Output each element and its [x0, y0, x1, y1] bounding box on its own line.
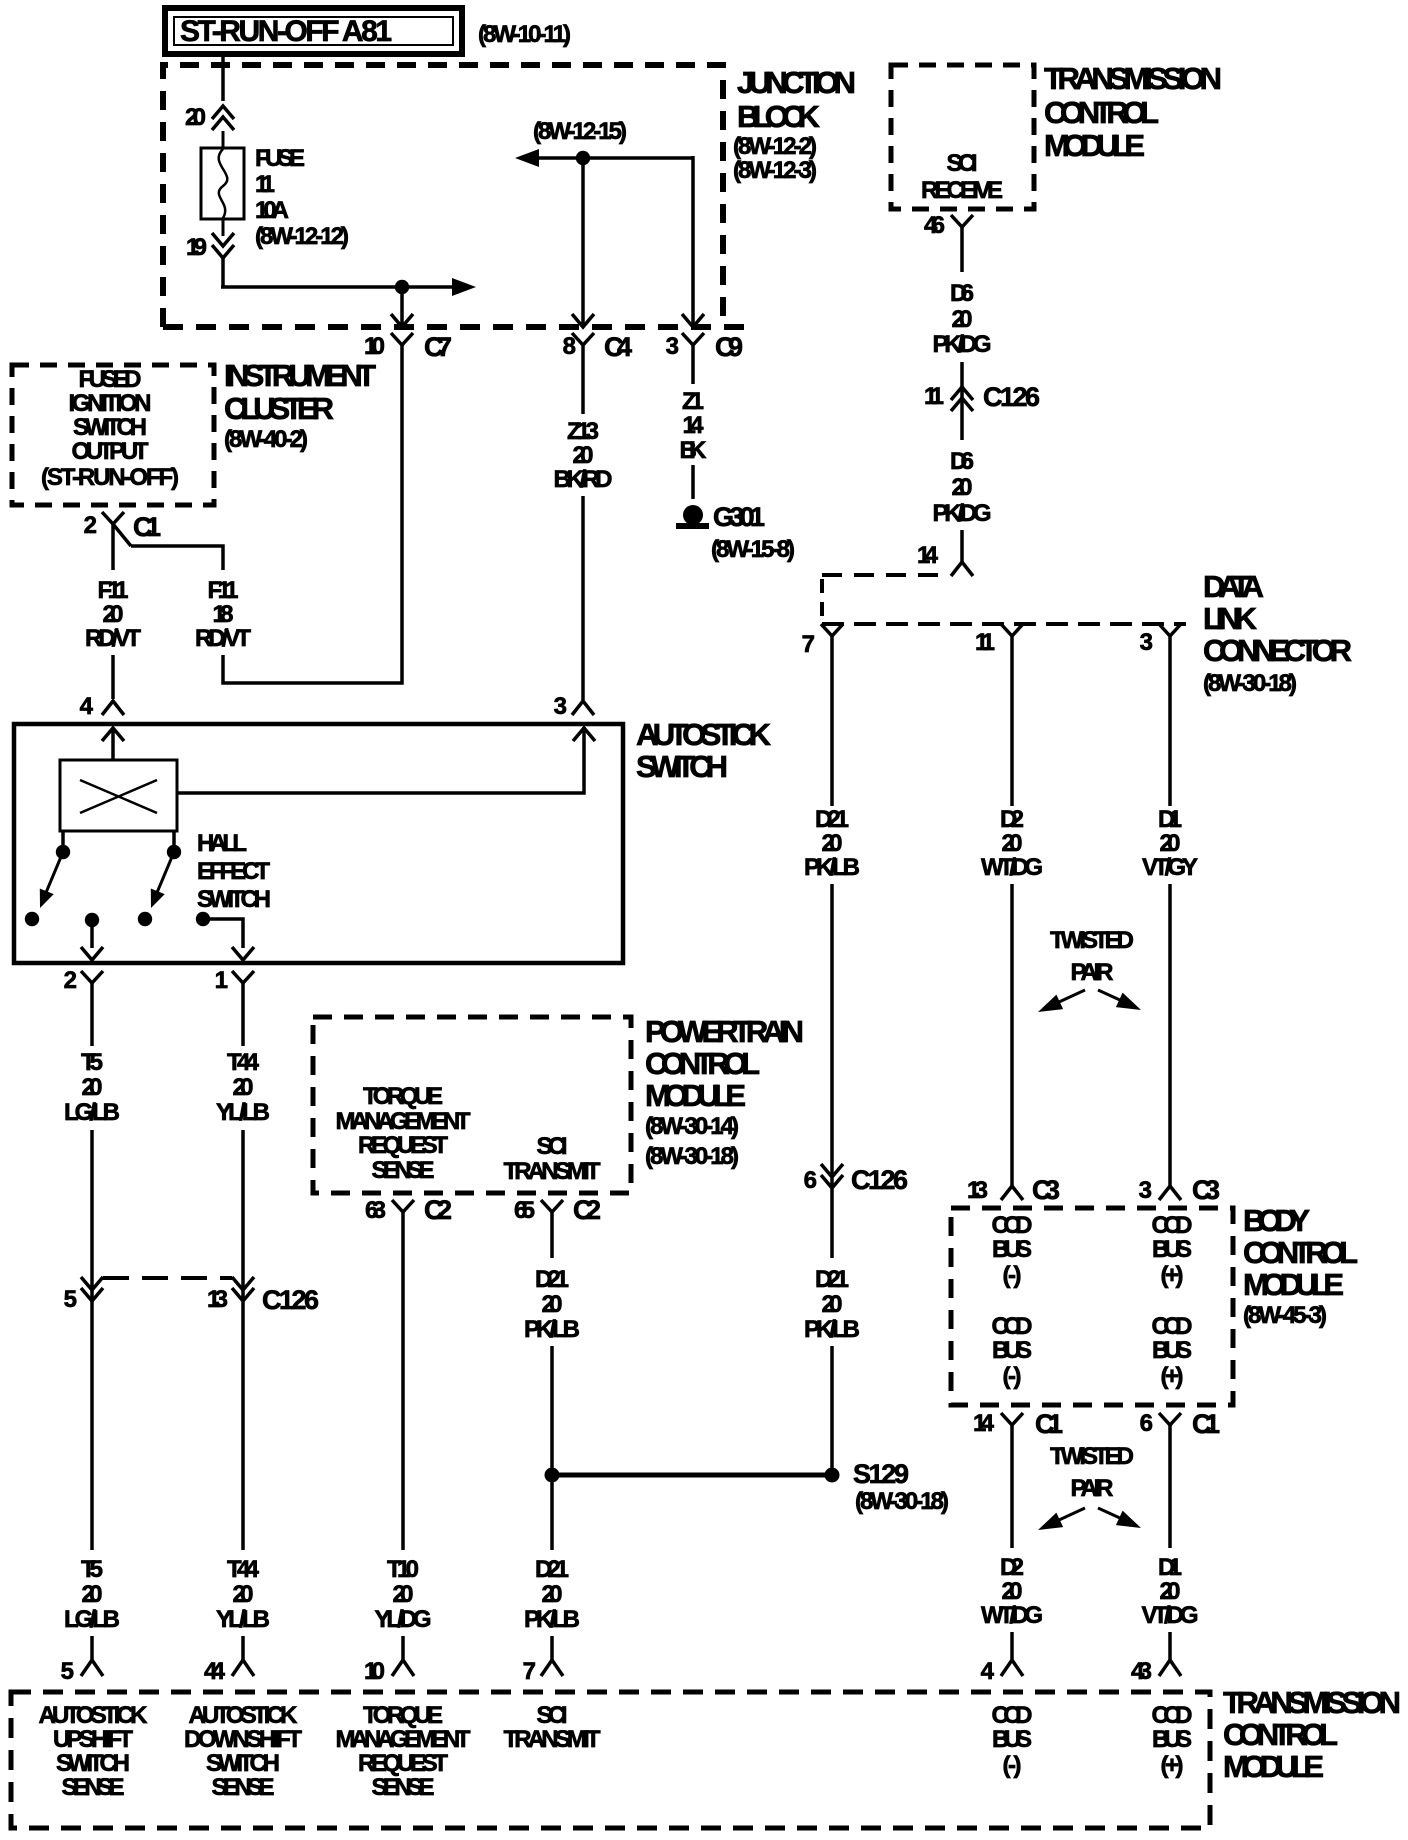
pin label 6 [804, 1167, 817, 1194]
pin label 3 [666, 333, 679, 360]
svg-text:TRANSMIT: TRANSMIT [504, 1158, 601, 1185]
svg-text:3: 3 [1140, 629, 1153, 656]
svg-text:(8W-12-2): (8W-12-2) [733, 133, 817, 160]
wire pin4 to hall sensor [111, 728, 115, 760]
svg-text:LG/LB: LG/LB [64, 1099, 120, 1126]
wire from fuse to C7 drop [221, 258, 403, 287]
powertrain control module title [645, 1014, 804, 1170]
svg-text:MODULE: MODULE [645, 1078, 746, 1113]
transmission control module title (bottom) [1223, 1685, 1401, 1784]
svg-text:CCD: CCD [992, 1702, 1033, 1729]
autostick upshift switch sense label [39, 1702, 149, 1801]
junction node at S129 branch [545, 1468, 560, 1483]
twisted pair callout (upper) [1038, 927, 1141, 1012]
svg-text:20: 20 [822, 830, 843, 857]
connector fork pin 46 [951, 215, 973, 234]
connector C1 fork (pin 2) [102, 512, 131, 546]
svg-text:20: 20 [233, 1074, 254, 1101]
svg-text:11: 11 [255, 171, 275, 198]
svg-text:C9: C9 [715, 332, 743, 362]
svg-text:D2: D2 [1000, 806, 1024, 833]
svg-text:7: 7 [523, 1658, 536, 1685]
svg-text:CCD: CCD [992, 1212, 1033, 1239]
reference (8W-15-8) [711, 536, 795, 563]
wire F11 18 lower segment to instrument cluster [223, 356, 402, 683]
junction node on A81 wire [395, 280, 409, 294]
svg-text:F11: F11 [208, 577, 239, 604]
svg-text:TRANSMIT: TRANSMIT [504, 1726, 601, 1753]
svg-text:YL/DG: YL/DG [375, 1606, 432, 1633]
connector pin 19 (fuse cavity, double chevron) [212, 233, 234, 258]
svg-text:4: 4 [981, 1658, 995, 1685]
svg-text:3: 3 [666, 333, 679, 360]
pin label 20 [185, 104, 206, 131]
wire Z13 lower segment [581, 496, 585, 700]
body control module dashed box [951, 1208, 1233, 1405]
svg-text:RECEIVE: RECEIVE [921, 177, 1003, 204]
svg-text:SCI: SCI [537, 1702, 568, 1729]
svg-text:5: 5 [61, 1658, 74, 1685]
wire D1 from DLC pin 3 [1168, 644, 1172, 806]
wire down to C7 [400, 287, 404, 327]
svg-text:10: 10 [364, 333, 385, 360]
svg-text:D2: D2 [1000, 1554, 1024, 1581]
wire D21 middle segment [550, 1346, 554, 1550]
junction node on 8W-12-15 wire [576, 151, 590, 165]
svg-text:TRANSMISSION: TRANSMISSION [1044, 61, 1222, 96]
connector fork TCM pin 4 [1001, 1660, 1023, 1676]
wire T44 middle segment [241, 1130, 245, 1550]
svg-text:T44: T44 [227, 1049, 260, 1076]
wire D21 bottom segment [550, 1636, 554, 1660]
svg-text:BK/RD: BK/RD [554, 466, 613, 493]
reference (8W-12-15) [533, 118, 627, 145]
autostick switch box [14, 724, 623, 963]
wire label D2 20 WT/DG lower [981, 1554, 1043, 1629]
svg-text:JUNCTION: JUNCTION [737, 65, 856, 100]
svg-text:D21: D21 [535, 1266, 569, 1293]
svg-text:MODULE: MODULE [1243, 1267, 1344, 1302]
svg-text:D21: D21 [815, 1266, 849, 1293]
C126 harness jumper (dashed) [103, 1276, 232, 1280]
wire T44 bottom segment [241, 1636, 245, 1660]
svg-text:Z1: Z1 [682, 388, 704, 415]
svg-text:D1: D1 [1158, 1554, 1182, 1581]
wire label D6 20 PK/DG lower [933, 448, 992, 527]
svg-text:C2: C2 [573, 1195, 601, 1225]
svg-text:SWITCH: SWITCH [197, 886, 271, 913]
pin label 5 [64, 1286, 77, 1313]
connector name C9 [715, 332, 743, 362]
wire hall sensor to pin 3 [177, 727, 584, 793]
wire D21 from SCI transmit [550, 1220, 554, 1258]
svg-text:11: 11 [924, 383, 944, 410]
connector name C2 [424, 1195, 452, 1225]
connector C126 pin 11 (double chevron) [951, 387, 973, 411]
svg-text:43: 43 [1131, 1658, 1152, 1685]
svg-text:FUSE: FUSE [255, 145, 305, 172]
wire label D6 20 PK/DG [933, 280, 992, 358]
wire T5 middle segment [90, 1130, 94, 1550]
connector C126 pin 5 (double chevron) [81, 1277, 103, 1301]
svg-text:C3: C3 [1032, 1175, 1060, 1205]
svg-text:RD/VT: RD/VT [195, 625, 251, 652]
svg-text:20: 20 [82, 1581, 103, 1608]
pin label 43 [1131, 1658, 1152, 1685]
svg-text:D6: D6 [950, 448, 974, 475]
pin label 7 [802, 631, 815, 658]
svg-text:C1: C1 [1035, 1409, 1063, 1439]
svg-text:D21: D21 [815, 806, 849, 833]
svg-text:19: 19 [186, 234, 207, 261]
connector name C7 [424, 332, 452, 362]
svg-text:ST-RUN-OFF A81: ST-RUN-OFF A81 [180, 15, 392, 48]
fused ignition switch output dashed box [12, 365, 214, 505]
svg-text:C3: C3 [1192, 1175, 1220, 1205]
svg-text:20: 20 [1002, 830, 1023, 857]
pin label 3 [554, 693, 567, 720]
connector pin 20 (fuse cavity, double chevron) [212, 106, 234, 130]
torque management request sense label [336, 1083, 471, 1184]
pin label 3 [1140, 629, 1153, 656]
pin label 14 [917, 542, 939, 569]
svg-text:(+): (+) [1161, 1262, 1184, 1289]
pin label 2 [64, 967, 77, 994]
connector name C1 [1035, 1409, 1063, 1439]
connector fork TCM pin 5 [81, 1660, 103, 1676]
data link connector boundary (dashed) [822, 575, 1186, 624]
transmission control module dashed box (bottom) [11, 1692, 1210, 1828]
svg-text:PK/LB: PK/LB [804, 854, 860, 881]
svg-text:INSTRUMENT: INSTRUMENT [224, 358, 376, 393]
wire label D21 20 PK/LB [524, 1266, 580, 1343]
pin label 10 [364, 333, 385, 360]
svg-text:BLOCK: BLOCK [737, 99, 821, 134]
svg-text:20: 20 [82, 1074, 103, 1101]
connector fork pin 2 below autostick switch [81, 971, 103, 990]
pin 3 entry arrow [573, 728, 595, 741]
svg-text:3: 3 [1139, 1177, 1152, 1204]
ccd bus minus label (bottom) [992, 1702, 1033, 1779]
data link connector title [1203, 569, 1352, 697]
switch S1 output contact [85, 913, 99, 927]
wire A81 feed from source box to fuse [221, 57, 225, 101]
svg-text:(ST-RUN-OFF): (ST-RUN-OFF) [41, 464, 179, 491]
connector fork DLC pin 7 [821, 624, 843, 644]
splice name S129 [853, 1459, 909, 1489]
svg-text:46: 46 [924, 212, 945, 239]
svg-text:CCD: CCD [1152, 1702, 1193, 1729]
connector fork C3 pin 13 [1001, 1186, 1023, 1200]
svg-text:CONTROL: CONTROL [645, 1046, 760, 1081]
ccd bus plus label (C1 side) [1152, 1313, 1193, 1390]
wire label F11 20 RD/VT [85, 577, 141, 652]
pin 1 exit arrow [232, 947, 254, 960]
sci receive label [921, 150, 1003, 204]
sci transmit label (bottom) [504, 1702, 601, 1753]
svg-text:HALL: HALL [197, 830, 247, 857]
transmission control module title [1044, 61, 1222, 163]
wire label D21 20 PK/LB lower [804, 1266, 860, 1343]
svg-text:14: 14 [683, 412, 705, 439]
connector fork pin 4 of autostick switch [102, 701, 124, 715]
connector C2 fork (pin 63) [392, 1200, 414, 1220]
svg-text:MANAGEMENT: MANAGEMENT [336, 1726, 471, 1753]
svg-text:C2: C2 [424, 1195, 452, 1225]
svg-text:SENSE: SENSE [372, 1157, 435, 1184]
svg-text:20: 20 [822, 1291, 843, 1318]
pin label 8 [563, 333, 576, 360]
svg-text:IGNITION: IGNITION [69, 390, 152, 417]
svg-text:TRANSMISSION: TRANSMISSION [1223, 1685, 1401, 1720]
svg-text:PAIR: PAIR [1071, 1475, 1114, 1502]
svg-text:(8W-30-14): (8W-30-14) [645, 1113, 739, 1140]
svg-text:C126: C126 [851, 1165, 908, 1195]
wire label T44 20 YL/LB lower [216, 1556, 270, 1633]
svg-text:20: 20 [1160, 1578, 1181, 1605]
pin label 10 [364, 1658, 385, 1685]
svg-text:2: 2 [64, 967, 77, 994]
switch S1 open contact [25, 912, 39, 926]
wire label Z1 14 BK [680, 388, 708, 464]
wire T5 bottom segment [90, 1636, 94, 1660]
wire D2 segment to BCM [1010, 884, 1014, 1186]
connector fork DLC pin 3 [1159, 624, 1181, 644]
switch S2 output contact [196, 912, 210, 926]
twisted pair callout (lower) [1038, 1443, 1141, 1530]
connector fork C3 pin 3 [1159, 1186, 1181, 1200]
wire label T5 20 LG/LB lower [64, 1556, 120, 1633]
wire D2 from DLC pin 11 [1010, 644, 1014, 806]
fuse value label [255, 145, 349, 250]
svg-text:REQUEST: REQUEST [358, 1132, 448, 1159]
svg-text:11: 11 [975, 629, 995, 656]
svg-text:(8W-40-2): (8W-40-2) [224, 426, 308, 453]
svg-text:T44: T44 [227, 1556, 260, 1583]
switch S2 arm with arrowhead [151, 852, 174, 908]
svg-text:LINK: LINK [1203, 601, 1258, 636]
connector C126 pin 6 (double chevron) [821, 1164, 843, 1188]
body control module title [1243, 1203, 1358, 1329]
svg-text:CONNECTOR: CONNECTOR [1203, 633, 1352, 668]
svg-text:F11: F11 [98, 577, 129, 604]
wire D21 segment to splice S129 [830, 1346, 834, 1470]
transmission control module (SCI receive) dashed box [891, 65, 1034, 209]
connector C2 fork (pin 65) [541, 1200, 563, 1220]
instrument cluster title [224, 358, 376, 453]
sci transmit label [504, 1133, 601, 1185]
svg-text:20: 20 [393, 1581, 414, 1608]
wire D21 from DLC pin 7 [830, 644, 834, 806]
svg-text:SCI: SCI [947, 150, 978, 177]
svg-text:SENSE: SENSE [212, 1774, 275, 1801]
connector C7 mating arrow [391, 314, 413, 327]
svg-text:6: 6 [1140, 1410, 1153, 1437]
wire label D21 20 PK/LB [804, 806, 860, 881]
svg-text:20: 20 [542, 1291, 563, 1318]
svg-text:TWISTED: TWISTED [1050, 927, 1134, 954]
svg-text:(8W-30-18): (8W-30-18) [645, 1143, 739, 1170]
wire T5 upper segment [90, 990, 94, 1046]
wire label Z13 20 BK/RD [554, 418, 613, 493]
svg-text:AUTOSTICK: AUTOSTICK [39, 1702, 149, 1729]
svg-text:Z13: Z13 [567, 418, 599, 445]
wire D6 bottom segment [960, 530, 964, 562]
wire D1 segment to BCM [1168, 884, 1172, 1186]
pin label 13 [967, 1177, 988, 1204]
svg-text:BUS: BUS [992, 1337, 1032, 1364]
svg-text:4: 4 [80, 693, 94, 720]
svg-text:AUTOSTICK: AUTOSTICK [636, 717, 772, 752]
svg-text:VT/GY: VT/GY [1142, 854, 1198, 881]
svg-text:20: 20 [1160, 830, 1181, 857]
pin label 4 [981, 1658, 995, 1685]
wire switch S1 to pin 2 [90, 925, 94, 948]
wire F11 20 upper segment [111, 540, 115, 570]
svg-text:SCI: SCI [537, 1133, 568, 1160]
pin label 6 [1140, 1410, 1153, 1437]
connector fork TCM pin 10 [392, 1660, 414, 1676]
connector name C126 [851, 1165, 908, 1195]
wire D1 from C1 pin 6 [1168, 1432, 1172, 1548]
pin label 11 [924, 383, 944, 410]
svg-text:T5: T5 [81, 1049, 103, 1076]
svg-text:EFFECT: EFFECT [197, 858, 270, 885]
wire label D1 20 VT/GY [1142, 806, 1198, 881]
autostick downshift switch sense label [184, 1702, 302, 1801]
wire label T10 20 YL/DG [375, 1556, 432, 1633]
svg-text:65: 65 [514, 1197, 535, 1224]
svg-text:D6: D6 [950, 280, 974, 307]
switch S1 arm with arrowhead [40, 852, 63, 908]
svg-text:10A: 10A [255, 197, 289, 224]
wire T10 segment [401, 1220, 405, 1550]
pin label 65 [514, 1197, 535, 1224]
wire label D1 20 VT/DG lower [1142, 1554, 1199, 1629]
ccd bus minus label (C1 side) [992, 1313, 1033, 1390]
connector fork pin 1 below autostick switch [232, 971, 254, 990]
svg-text:D1: D1 [1158, 806, 1182, 833]
pin label 46 [924, 212, 945, 239]
svg-text:S129: S129 [853, 1459, 909, 1489]
wire Z1 segment [691, 356, 695, 384]
junction block title [733, 65, 856, 184]
pin label 2 [84, 512, 97, 539]
svg-text:(8W-15-8): (8W-15-8) [711, 536, 795, 563]
svg-text:C1: C1 [133, 512, 161, 542]
svg-text:SENSE: SENSE [62, 1774, 125, 1801]
wire D2 bottom segment [1010, 1632, 1014, 1660]
power feed box ST-RUN-OFF A81 [165, 8, 462, 54]
svg-text:BUS: BUS [992, 1726, 1032, 1753]
svg-text:VT/DG: VT/DG [1142, 1602, 1199, 1629]
svg-text:6: 6 [804, 1167, 817, 1194]
svg-text:CCD: CCD [1152, 1212, 1193, 1239]
connector C4 fork (pin 8) [572, 333, 594, 356]
svg-text:BUS: BUS [1152, 1236, 1192, 1263]
wire down to C4 [581, 158, 585, 327]
connector fork DLC pin 11 [1001, 624, 1023, 644]
ground name G301 [713, 502, 765, 532]
svg-text:SWITCH: SWITCH [636, 749, 728, 784]
svg-text:14: 14 [917, 542, 939, 569]
svg-text:20: 20 [103, 601, 124, 628]
switch S2 open contact [138, 912, 152, 926]
svg-text:WT/DG: WT/DG [981, 854, 1043, 881]
fused ignition switch output label [41, 366, 179, 491]
svg-text:PAIR: PAIR [1071, 959, 1114, 986]
connector fork C1 pin 14 [1001, 1413, 1023, 1432]
pin label 4 [80, 693, 94, 720]
svg-text:MANAGEMENT: MANAGEMENT [336, 1108, 471, 1135]
svg-text:LG/LB: LG/LB [64, 1606, 120, 1633]
svg-text:PK/LB: PK/LB [524, 1316, 580, 1343]
wire label D21 20 PK/LB lower [524, 1556, 580, 1633]
pin label 5 [61, 1658, 74, 1685]
svg-text:CCD: CCD [992, 1313, 1033, 1340]
fuse F11 10A [201, 131, 244, 236]
wire F11 20 lower segment [111, 655, 115, 699]
svg-text:TORQUE: TORQUE [363, 1083, 443, 1110]
connector name C3 [1032, 1175, 1060, 1205]
svg-text:5: 5 [64, 1286, 77, 1313]
svg-text:T5: T5 [81, 1556, 103, 1583]
svg-text:CONTROL: CONTROL [1223, 1717, 1338, 1752]
pin label 63 [365, 1197, 386, 1224]
svg-text:(+): (+) [1161, 1752, 1184, 1779]
svg-text:3: 3 [554, 693, 567, 720]
connector fork pin 14 of data link connector [951, 562, 973, 576]
pin label 1 [215, 967, 228, 994]
pin label 3 [1139, 1177, 1152, 1204]
svg-text:CLUSTER: CLUSTER [224, 391, 334, 426]
svg-text:BUS: BUS [992, 1236, 1032, 1263]
wire label D2 20 WT/DG [981, 806, 1043, 881]
pin label 44 [204, 1658, 226, 1685]
wire corner down to C9 [691, 156, 695, 327]
pin 4 entry arrow [102, 728, 124, 741]
svg-text:20: 20 [185, 104, 206, 131]
svg-text:YL/LB: YL/LB [216, 1606, 270, 1633]
wire label F11 18 RD/VT [195, 577, 251, 652]
svg-text:REQUEST: REQUEST [358, 1750, 448, 1777]
svg-text:MODULE: MODULE [1223, 1749, 1324, 1784]
connector C126 pin 13 (double chevron) [232, 1277, 254, 1301]
connector name C1 [1192, 1409, 1220, 1439]
ccd bus plus label (bottom) [1152, 1702, 1193, 1779]
wire F11 18 branch [131, 546, 223, 570]
svg-text:BUS: BUS [1152, 1726, 1192, 1753]
svg-text:SWITCH: SWITCH [56, 1750, 130, 1777]
svg-text:(8W-45-3): (8W-45-3) [1243, 1302, 1327, 1329]
svg-text:PK/LB: PK/LB [524, 1606, 580, 1633]
connector fork TCM pin 43 [1159, 1660, 1181, 1676]
wire Z1 to ground [691, 465, 695, 499]
svg-text:14: 14 [973, 1410, 995, 1437]
reference (8W-30-18) [855, 1488, 949, 1515]
pin label 14 [973, 1410, 995, 1437]
svg-text:13: 13 [967, 1177, 988, 1204]
svg-text:20: 20 [542, 1581, 563, 1608]
svg-text:(-): (-) [1003, 1262, 1022, 1289]
svg-text:PK/DG: PK/DG [933, 331, 992, 358]
svg-text:(-): (-) [1003, 1752, 1022, 1779]
svg-text:SENSE: SENSE [372, 1774, 435, 1801]
svg-text:CONTROL: CONTROL [1044, 95, 1159, 130]
wire Z13 upper segment [581, 356, 585, 414]
connector fork C1 pin 6 [1159, 1413, 1181, 1432]
svg-text:SWITCH: SWITCH [206, 1750, 280, 1777]
